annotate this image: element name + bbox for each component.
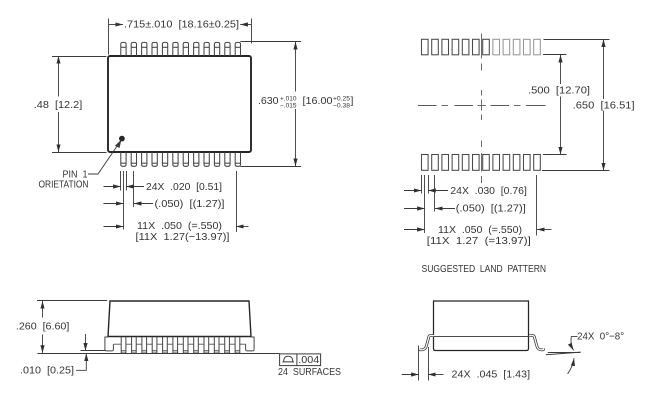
lead foot bottom reference line: [81, 350, 106, 352]
svg-text:.260 [6.60]: .260 [6.60]: [16, 321, 70, 333]
dimension .010 lower arrow with leader: [76, 353, 86, 370]
svg-text:.500 [12.70]: .500 [12.70]: [528, 85, 590, 97]
dimension .630 line with arrows: [295, 42, 297, 92]
dimension .500 extension line bottom: [543, 154, 567, 156]
extension line pad1 left edge: [421, 175, 423, 194]
extension line pin1 center: [123, 171, 125, 230]
flatness feature control frame: [280, 354, 321, 366]
extension line pin12 center: [236, 171, 238, 232]
extension line pin1 left edge: [120, 171, 122, 191]
dimension .500 extension line top: [543, 54, 567, 56]
svg-text:(.050) [(1.27)]: (.050) [(1.27)]: [155, 198, 225, 210]
side view leads (12 vertical): [121, 337, 240, 353]
angle reference slanted line: [546, 352, 581, 355]
dimension .010 upper arrow: [85, 334, 87, 351]
svg-text:−.015: −.015: [280, 102, 297, 109]
svg-text:.004: .004: [298, 354, 319, 366]
svg-text:24X 0°−8°: 24X 0°−8°: [577, 331, 624, 343]
svg-text:SUGGESTED LAND PATTERN: SUGGESTED LAND PATTERN: [422, 263, 547, 275]
pin 1 leader arrowhead: [115, 140, 122, 149]
end view parting line: [434, 336, 529, 338]
dimension 24X .020 arrows: [104, 186, 121, 188]
svg-text:24 SURFACES: 24 SURFACES: [278, 366, 341, 378]
angle dimension lower arc arrow: [568, 358, 574, 374]
flatness symbol: [282, 356, 294, 362]
top view package body: [108, 56, 251, 152]
extension line pin1 right edge: [126, 171, 128, 191]
dimension .500 line with arrows: [560, 55, 562, 84]
dimension 24X .030 arrows: [404, 190, 422, 192]
dimension .715 extension line left: [108, 19, 110, 55]
side view right end lead profile: [246, 337, 255, 351]
svg-text:24X .045 [1.43]: 24X .045 [1.43]: [452, 369, 531, 381]
pin 1 leader line: [88, 144, 119, 174]
dimension 11X .050 arrows: [104, 226, 124, 228]
seating plane line: [38, 353, 280, 355]
svg-text:[11X 1.27(−13.97)]: [11X 1.27(−13.97)]: [136, 231, 230, 243]
extension line pad1 center: [424, 175, 426, 233]
side view package body: [108, 301, 251, 337]
svg-text:11X .050 (=.550): 11X .050 (=.550): [438, 224, 522, 236]
extension line pad2 center: [434, 175, 436, 212]
land pattern upper pad row (12 pads): [422, 39, 541, 55]
side view left end lead profile: [105, 337, 114, 351]
svg-text:[11X 1.27 (=13.97)]: [11X 1.27 (=13.97)]: [427, 235, 531, 247]
pin 1 orientation dot: [119, 136, 125, 142]
dimension 24X .045 extension line left: [418, 346, 420, 381]
end view right gull-wing lead: [529, 336, 544, 350]
dimension .48 extension line top: [52, 56, 107, 58]
svg-text:(.050) [(1.27)]: (.050) [(1.27)]: [456, 203, 526, 215]
dimension (.050) arrows: [104, 203, 124, 205]
end view package body: [434, 301, 529, 351]
svg-text:−0.38: −0.38: [333, 102, 350, 109]
dimension .630 extension line top: [240, 41, 301, 43]
dimension .650 extension line bottom: [542, 170, 610, 172]
dimension 24X .045 extension line right: [428, 347, 430, 381]
dimension .48 line with arrows: [58, 56, 60, 97]
top view lower pin row (12 leads): [121, 152, 241, 166]
svg-text:24X .030 [0.76]: 24X .030 [0.76]: [450, 185, 527, 197]
angle dimension leader and upper arc arrow: [571, 337, 578, 351]
land pattern lower pad row (12 pads): [422, 155, 541, 171]
land dimension (.050) arrows: [404, 208, 425, 210]
extension line pin2 center: [133, 171, 135, 207]
vertical centerline: [481, 34, 483, 59]
dimension .650 extension line top: [544, 39, 610, 41]
extension line pad12 center: [536, 175, 538, 236]
dimension .650 line with arrows: [603, 39, 605, 99]
top view upper pin row (12 leads): [121, 42, 241, 56]
svg-text:.010 [0.25]: .010 [0.25]: [20, 364, 74, 376]
angle datum horizontal line: [548, 352, 580, 354]
dimension .260 extension line top: [37, 300, 107, 302]
dimension 24X .045 arrows: [402, 374, 419, 376]
svg-text:.650 [16.51]: .650 [16.51]: [573, 100, 635, 112]
svg-text:.630: .630: [258, 95, 279, 107]
svg-text:.48 [12.2]: .48 [12.2]: [34, 99, 83, 111]
svg-text:[16.00: [16.00: [303, 95, 333, 107]
horizontal centerline: [418, 105, 437, 107]
svg-text:24X .020 [0.51]: 24X .020 [0.51]: [146, 181, 222, 193]
svg-text:ORIETATION: ORIETATION: [39, 178, 89, 190]
dimension .630 extension line bottom: [240, 166, 301, 168]
dimension .48 extension line bottom: [52, 152, 107, 154]
svg-text:]: ]: [351, 95, 354, 107]
end view left gull-wing lead: [420, 336, 435, 350]
dimension .715 extension line right: [251, 19, 253, 44]
svg-text:.715±.010 [18.16±0.25]: .715±.010 [18.16±0.25]: [124, 19, 239, 31]
dimension .715 line with arrows: [108, 24, 123, 26]
dimension .260 line with arrows: [42, 301, 44, 318]
land dimension 11X .050 arrows: [404, 229, 425, 231]
side view lead row connector line: [113, 343, 245, 345]
extension line pad1 right edge: [428, 175, 430, 194]
